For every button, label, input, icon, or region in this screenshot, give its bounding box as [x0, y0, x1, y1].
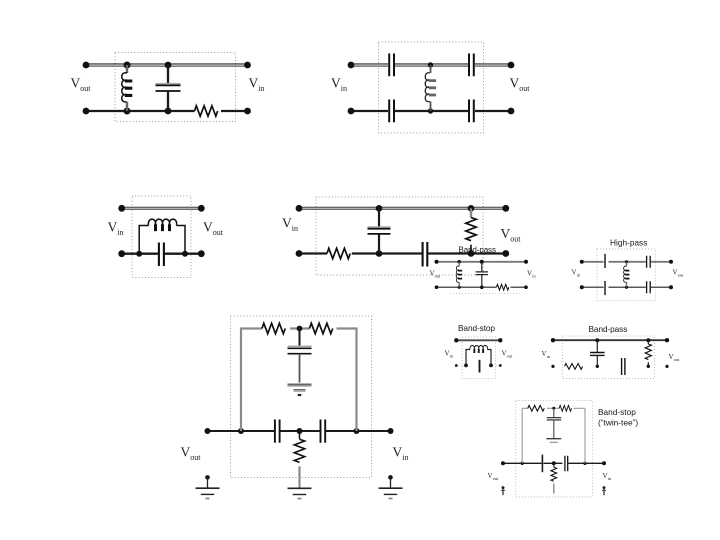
node dot bottom inductor mini 1	[458, 286, 461, 289]
wire main rail mini 5	[503, 462, 604, 464]
node dot bottom-left mini 3	[455, 364, 458, 367]
capacitor C4b series	[423, 242, 428, 267]
svg-text:Band-stop: Band-stop	[598, 407, 636, 417]
ground below mid resistor circuit 5	[288, 488, 312, 498]
wire bottom rail circuit 3	[122, 253, 202, 255]
node dot top-left mini 4	[551, 338, 555, 342]
capacitor bottom-right mini 2	[647, 281, 651, 293]
node dot bottom-right terminal	[244, 108, 251, 115]
node dot bottom inductor junction	[124, 108, 131, 115]
wire top rail circuit 1	[86, 64, 248, 66]
ground left source circuit 5	[196, 488, 220, 498]
dotted enclosure box circuit 2	[379, 42, 484, 133]
capacitor series mini 4	[622, 358, 625, 375]
node dot top inductor junction	[124, 62, 131, 69]
svg-text:Vout: Vout	[488, 472, 500, 481]
wire top rail mini 2	[582, 261, 671, 263]
node dot top capacitor mini 1	[480, 260, 484, 264]
node dot top capacitor junction circuit 4	[376, 205, 383, 212]
node dot loop-left junction circuit 3	[136, 251, 142, 257]
resistor top-right mini 5	[559, 405, 571, 411]
node dot left terminal circuit 5	[205, 428, 211, 434]
wire bottom rail mini 2	[582, 286, 671, 288]
ground below top tee capacitor circuit 5	[288, 384, 312, 395]
node dot top-left mini 2	[580, 260, 584, 264]
resistor shunt mid mini 5	[551, 463, 557, 493]
wire top rail mini 4	[553, 339, 667, 341]
node dot top capacitor mini 4	[595, 338, 599, 342]
svg-text:Vin: Vin	[445, 350, 454, 359]
resistor R4b shunt	[466, 208, 476, 253]
svg-text:Vin: Vin	[603, 472, 612, 481]
inductor mini 3	[470, 346, 488, 353]
svg-text:Vin: Vin	[527, 270, 536, 279]
wire loop left vertical mini 5	[521, 408, 523, 463]
node dot bottom-right terminal circuit 2	[508, 108, 515, 115]
node dot loop-left bottom mini 3	[464, 364, 468, 368]
inductor L1	[122, 65, 133, 111]
resistor R5a top-left	[262, 323, 285, 333]
node dot right source terminal	[388, 475, 393, 480]
inductor mini 2	[624, 262, 630, 287]
dotted enclosure box circuit 3	[132, 196, 191, 278]
capacitor shunt mini 4	[590, 340, 605, 365]
wire right source lead	[390, 477, 392, 487]
node dot right loop mini 5	[583, 462, 586, 465]
node dot loop-right junction circuit 3	[182, 251, 188, 257]
node dot below shunt resistor mini 4	[647, 365, 650, 368]
node dot left loop junction circuit 5	[238, 428, 244, 434]
node dot bottom-right mini 1	[524, 285, 528, 289]
capacitor series right mini 5	[565, 456, 568, 471]
resistor top-left mini 5	[528, 405, 544, 411]
capacitor C2d bottom-right	[469, 100, 474, 123]
inductor L3	[148, 219, 176, 231]
svg-text:Vout: Vout	[669, 353, 681, 362]
node dot top-right terminal circuit 4	[502, 205, 509, 212]
node dot mid junction circuit 5	[297, 428, 303, 434]
ground left source mini 5	[501, 486, 505, 495]
node dot left terminal mini 5	[501, 461, 505, 465]
svg-text:Vout: Vout	[510, 76, 531, 94]
capacitor C5b series right	[321, 420, 326, 443]
node dot top inductor mini 1	[457, 260, 461, 264]
inductor L2	[425, 65, 436, 111]
node dot right loop junction circuit 5	[354, 428, 360, 434]
node dot top capacitor junction	[165, 62, 172, 69]
wire loop top rail circuit 5	[240, 327, 358, 329]
node dot loop-right bottom mini 3	[489, 364, 493, 368]
node dot top-right mini 3	[498, 338, 502, 342]
capacitor shunt top tee mini 5	[547, 408, 561, 438]
node dot top tee mini 5	[552, 407, 555, 410]
node dot top-left mini 1	[435, 260, 439, 264]
dotted enclosure box mini 5	[516, 401, 593, 498]
wire bottom rail mini 3 (nearly invisible in source)	[456, 365, 500, 367]
wire loop right vertical mini 5	[584, 408, 586, 463]
node dot bottom-right mini 3	[499, 364, 502, 367]
node dot top-left mini 3	[454, 338, 458, 342]
node dot bottom capacitor junction circuit 4	[376, 250, 383, 257]
svg-text:Vin: Vin	[282, 216, 298, 234]
dotted bottom edge mini 1	[450, 293, 521, 295]
capacitor C5a series left	[275, 420, 280, 443]
svg-text:Band-stop: Band-stop	[458, 323, 495, 333]
wire top rail circuit 3	[122, 207, 202, 209]
node dot bottom-left terminal	[83, 108, 90, 115]
capacitor mini 3	[479, 360, 481, 373]
node dot top-left terminal circuit 4	[296, 205, 303, 212]
capacitor series left mini 5	[541, 455, 543, 473]
svg-text:Vout: Vout	[673, 269, 685, 278]
node dot bottom capacitor mini 1	[480, 285, 484, 289]
dotted enclosure box circuit 5	[231, 316, 372, 478]
inductor mini 1	[456, 262, 462, 287]
wire top rail circuit 4	[299, 207, 506, 209]
node dot bottom-left terminal circuit 3	[118, 250, 125, 257]
svg-text:Vout: Vout	[501, 226, 522, 244]
ground below top tee capacitor mini 5	[546, 439, 561, 443]
wire bottom rail circuit 4	[299, 252, 506, 254]
capacitor C2a top-left	[389, 54, 394, 77]
node dot bottom-right terminal circuit 3	[198, 250, 205, 257]
node dot bottom-left mini 4	[551, 365, 554, 368]
node dot bottom-left mini 1	[435, 285, 439, 289]
capacitor C1	[156, 65, 181, 111]
node dot top resistor mini 4	[646, 338, 650, 342]
node dot top-right mini 1	[524, 260, 528, 264]
node dot right terminal mini 5	[602, 461, 606, 465]
node dot bottom-right mini 4	[665, 365, 668, 368]
node dot top-right mini 2	[669, 260, 673, 264]
resistor R5b top-right	[310, 323, 333, 333]
svg-text:Band-pass: Band-pass	[459, 246, 496, 255]
svg-text:High-pass: High-pass	[610, 238, 647, 248]
svg-text:Vout: Vout	[203, 220, 224, 238]
dotted enclosure box circuit 4	[316, 197, 483, 275]
node dot top middle circuit 2	[428, 62, 433, 67]
wire LC loop circuit 3	[139, 226, 185, 254]
resistor series fragment mini 4	[565, 364, 583, 370]
wire top rail mini 3	[456, 339, 500, 341]
resistor shunt mini 4	[645, 340, 651, 365]
capacitor top-left mini 2	[604, 254, 606, 268]
resistor mini 1	[497, 284, 509, 290]
svg-text:Vin: Vin	[331, 76, 347, 94]
wire main rail circuit 5	[208, 430, 392, 432]
wire bottom rail right segment circuit 1	[221, 110, 248, 112]
node dot bottom middle mini 2	[625, 286, 628, 289]
svg-text:(“twin-tee”): (“twin-tee”)	[598, 418, 638, 428]
node dot top tee junction circuit 5	[297, 326, 303, 332]
wire loop left vertical circuit 5	[240, 329, 242, 432]
wire LC loop mini 3	[466, 350, 491, 366]
wire top rail circuit 2	[351, 64, 511, 66]
wire bottom rail mini 1	[437, 286, 527, 288]
capacitor C5c shunt top tee	[288, 329, 312, 383]
node dot bottom-right terminal circuit 4	[502, 250, 509, 257]
capacitor C4a shunt	[368, 208, 391, 253]
capacitor C2b top-right	[469, 54, 474, 77]
node dot bottom-left terminal circuit 2	[348, 108, 355, 115]
svg-text:Vin: Vin	[542, 350, 551, 359]
node dot bottom resistor junction circuit 4	[468, 250, 475, 257]
dotted enclosure box circuit 1	[115, 53, 236, 122]
resistor R4a series	[327, 248, 350, 258]
ground right source mini 5	[602, 486, 606, 495]
wire top rail mini 1	[437, 261, 527, 263]
capacitor top-right mini 2	[647, 256, 651, 268]
svg-text:Vin: Vin	[393, 445, 409, 463]
svg-text:Vin: Vin	[572, 269, 581, 278]
node dot bottom middle circuit 2	[428, 108, 433, 113]
node dot left loop mini 5	[521, 462, 524, 465]
capacitor C2c bottom-left	[389, 100, 394, 123]
svg-text:Vin: Vin	[108, 220, 124, 238]
node dot top middle mini 2	[625, 260, 628, 263]
node dot bottom-left mini 2	[580, 285, 584, 289]
dotted enclosure box mini 2	[597, 249, 656, 301]
wire left source lead	[207, 477, 209, 487]
ground right source circuit 5	[379, 488, 403, 498]
capacitor C3	[159, 243, 164, 267]
svg-text:Vout: Vout	[71, 76, 92, 94]
capacitor mini 1	[476, 262, 488, 287]
node dot left source terminal	[205, 475, 210, 480]
node dot below shunt capacitor mini 4	[596, 365, 599, 368]
node dot right terminal circuit 5	[388, 428, 394, 434]
node dot top-left terminal circuit 3	[118, 205, 125, 212]
node dot top resistor junction circuit 4	[468, 205, 475, 212]
node dot bottom-right mini 2	[669, 285, 673, 289]
node dot bottom capacitor junction	[165, 108, 172, 115]
wire loop right vertical circuit 5	[355, 329, 357, 432]
svg-text:Band-pass: Band-pass	[589, 324, 628, 334]
node dot top-right terminal circuit 2	[508, 62, 515, 69]
svg-text:Vout: Vout	[181, 445, 202, 463]
node dot bottom-left terminal circuit 4	[296, 250, 303, 257]
node dot mid mini 5	[552, 461, 556, 465]
resistor R5c shunt mid	[294, 431, 304, 488]
node dot top-left terminal circuit 2	[348, 62, 355, 69]
node dot top-right terminal	[244, 62, 251, 69]
capacitor bottom-left mini 2	[604, 281, 606, 295]
node dot top-right mini 4	[665, 338, 669, 342]
dotted enclosure box mini 4	[563, 336, 655, 379]
dotted enclosure box mini 3	[462, 337, 496, 379]
wire loop top rail mini 5	[522, 407, 585, 409]
wire bottom rail left segment circuit 1	[86, 110, 195, 112]
svg-text:Vout: Vout	[502, 350, 514, 359]
resistor R1	[195, 106, 218, 116]
svg-text:Vin: Vin	[249, 76, 265, 94]
wire bottom rail circuit 2	[351, 110, 511, 112]
node dot top-right terminal circuit 3	[198, 205, 205, 212]
svg-text:Vout: Vout	[430, 270, 442, 279]
node dot top-left terminal	[83, 62, 90, 69]
